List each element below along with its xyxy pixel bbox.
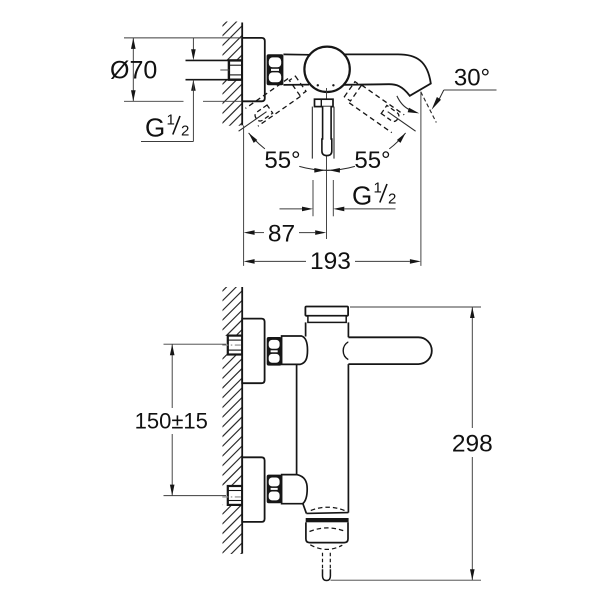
arc arrowheads	[249, 133, 258, 143]
wall (bottom view)	[241, 287, 243, 554]
svg-text:55°: 55°	[354, 147, 390, 174]
svg-text:Ø70: Ø70	[110, 57, 157, 85]
svg-text:2: 2	[181, 123, 189, 140]
wall (top view)	[241, 23, 243, 126]
connector pipe (top view)	[283, 53, 311, 55]
aerator hidden arc 1	[311, 507, 345, 510]
aerator housing	[306, 522, 348, 542]
wall hatching (top view)	[221, 4, 245, 144]
lever envelope lines	[311, 107, 313, 159]
svg-text:1: 1	[374, 180, 382, 197]
body right edge (upper)	[347, 322, 349, 337]
pipe centreline tick (top view)	[220, 69, 229, 71]
centreline bottom pipe	[222, 496, 241, 498]
spout (bottom view)	[348, 337, 431, 364]
outlet pipe edge	[303, 504, 307, 514]
body upper-left edge	[305, 322, 307, 336]
dim 193 extension (spout tip) handled above; dimension line	[244, 259, 255, 264]
dim 150+-15 extension lines	[164, 343, 227, 345]
supply thread bottom (bottom view)	[222, 486, 229, 504]
supply pipe (top view)	[186, 60, 229, 79]
aerator ring band	[306, 518, 349, 522]
screw dots	[317, 84, 319, 86]
spout joint arc	[343, 342, 348, 360]
dim 70: top extension line	[124, 37, 242, 39]
centreline top pipe	[222, 344, 241, 346]
svg-text:87: 87	[268, 221, 295, 248]
union cone top (bottom view)	[282, 336, 308, 364]
escutcheon flange (top view)	[242, 38, 265, 101]
30-deg leader arrow	[432, 97, 441, 110]
body right edge (lower)	[347, 364, 349, 512]
dim 70: bottom extension line	[124, 100, 184, 102]
aerator hidden arc 3	[310, 545, 342, 550]
svg-text:298: 298	[452, 431, 493, 458]
cap groove	[308, 316, 346, 323]
dim 298 dimension line	[471, 307, 473, 428]
spout (top view)	[340, 54, 431, 95]
svg-text:55°: 55°	[264, 147, 300, 174]
lever shaft + tip	[322, 107, 332, 156]
escutcheon bottom (bottom view)	[242, 457, 264, 522]
30-deg dashed slant line	[421, 92, 437, 123]
svg-text:150±15: 150±15	[135, 409, 208, 434]
outlet stem dashed	[322, 553, 324, 570]
wall hatching (bottom view)	[221, 269, 245, 584]
union cone bottom (bottom view)	[282, 475, 308, 504]
55-deg arc (left)	[249, 133, 265, 149]
aerator top edge	[306, 512, 348, 515]
body left edge (lower)	[296, 364, 298, 474]
svg-text:30°: 30°	[454, 65, 490, 92]
spout tip extension line (vertical)	[420, 92, 422, 266]
dim 70: dimension line	[132, 38, 134, 101]
supply thread top (bottom view)	[222, 336, 229, 354]
aerator hidden arc 2	[310, 528, 346, 532]
lever collar	[315, 99, 334, 106]
30-deg reference line	[444, 89, 497, 91]
55-deg arc (right)	[325, 166, 355, 170]
thread extension lines (below lever)	[312, 180, 314, 216]
svg-text:1: 1	[167, 112, 175, 129]
dim 298 extension lines	[350, 306, 481, 308]
dim 150+-15 dimension line	[171, 344, 173, 408]
spout swivel arc arrow	[397, 96, 410, 110]
dim 87	[244, 230, 255, 235]
dim 87 extension (wall face)	[243, 126, 245, 266]
union nut bottom (bottom view)	[267, 475, 282, 504]
outlet tip	[323, 569, 331, 580]
svg-text:2: 2	[388, 191, 396, 208]
union hex nut (top view)	[267, 54, 284, 85]
svg-text:G: G	[352, 181, 372, 211]
G1/2 leader (left)	[192, 38, 194, 50]
thread dim arrows	[280, 208, 303, 210]
svg-text:G: G	[145, 113, 165, 143]
body circle (top view)	[304, 47, 349, 92]
svg-text:193: 193	[310, 248, 351, 275]
lever swung left (dashed)	[245, 74, 306, 126]
lever swung right (dashed)	[343, 81, 404, 133]
escutcheon top (bottom view)	[242, 319, 264, 384]
union nut top (bottom view)	[267, 337, 282, 366]
pipe thread (top view)	[229, 60, 242, 79]
lever centreline	[326, 88, 328, 239]
body cap (bottom view)	[305, 307, 348, 316]
55-deg radial limit line (right)	[388, 112, 416, 132]
55-deg radial limit line (left)	[239, 112, 267, 132]
